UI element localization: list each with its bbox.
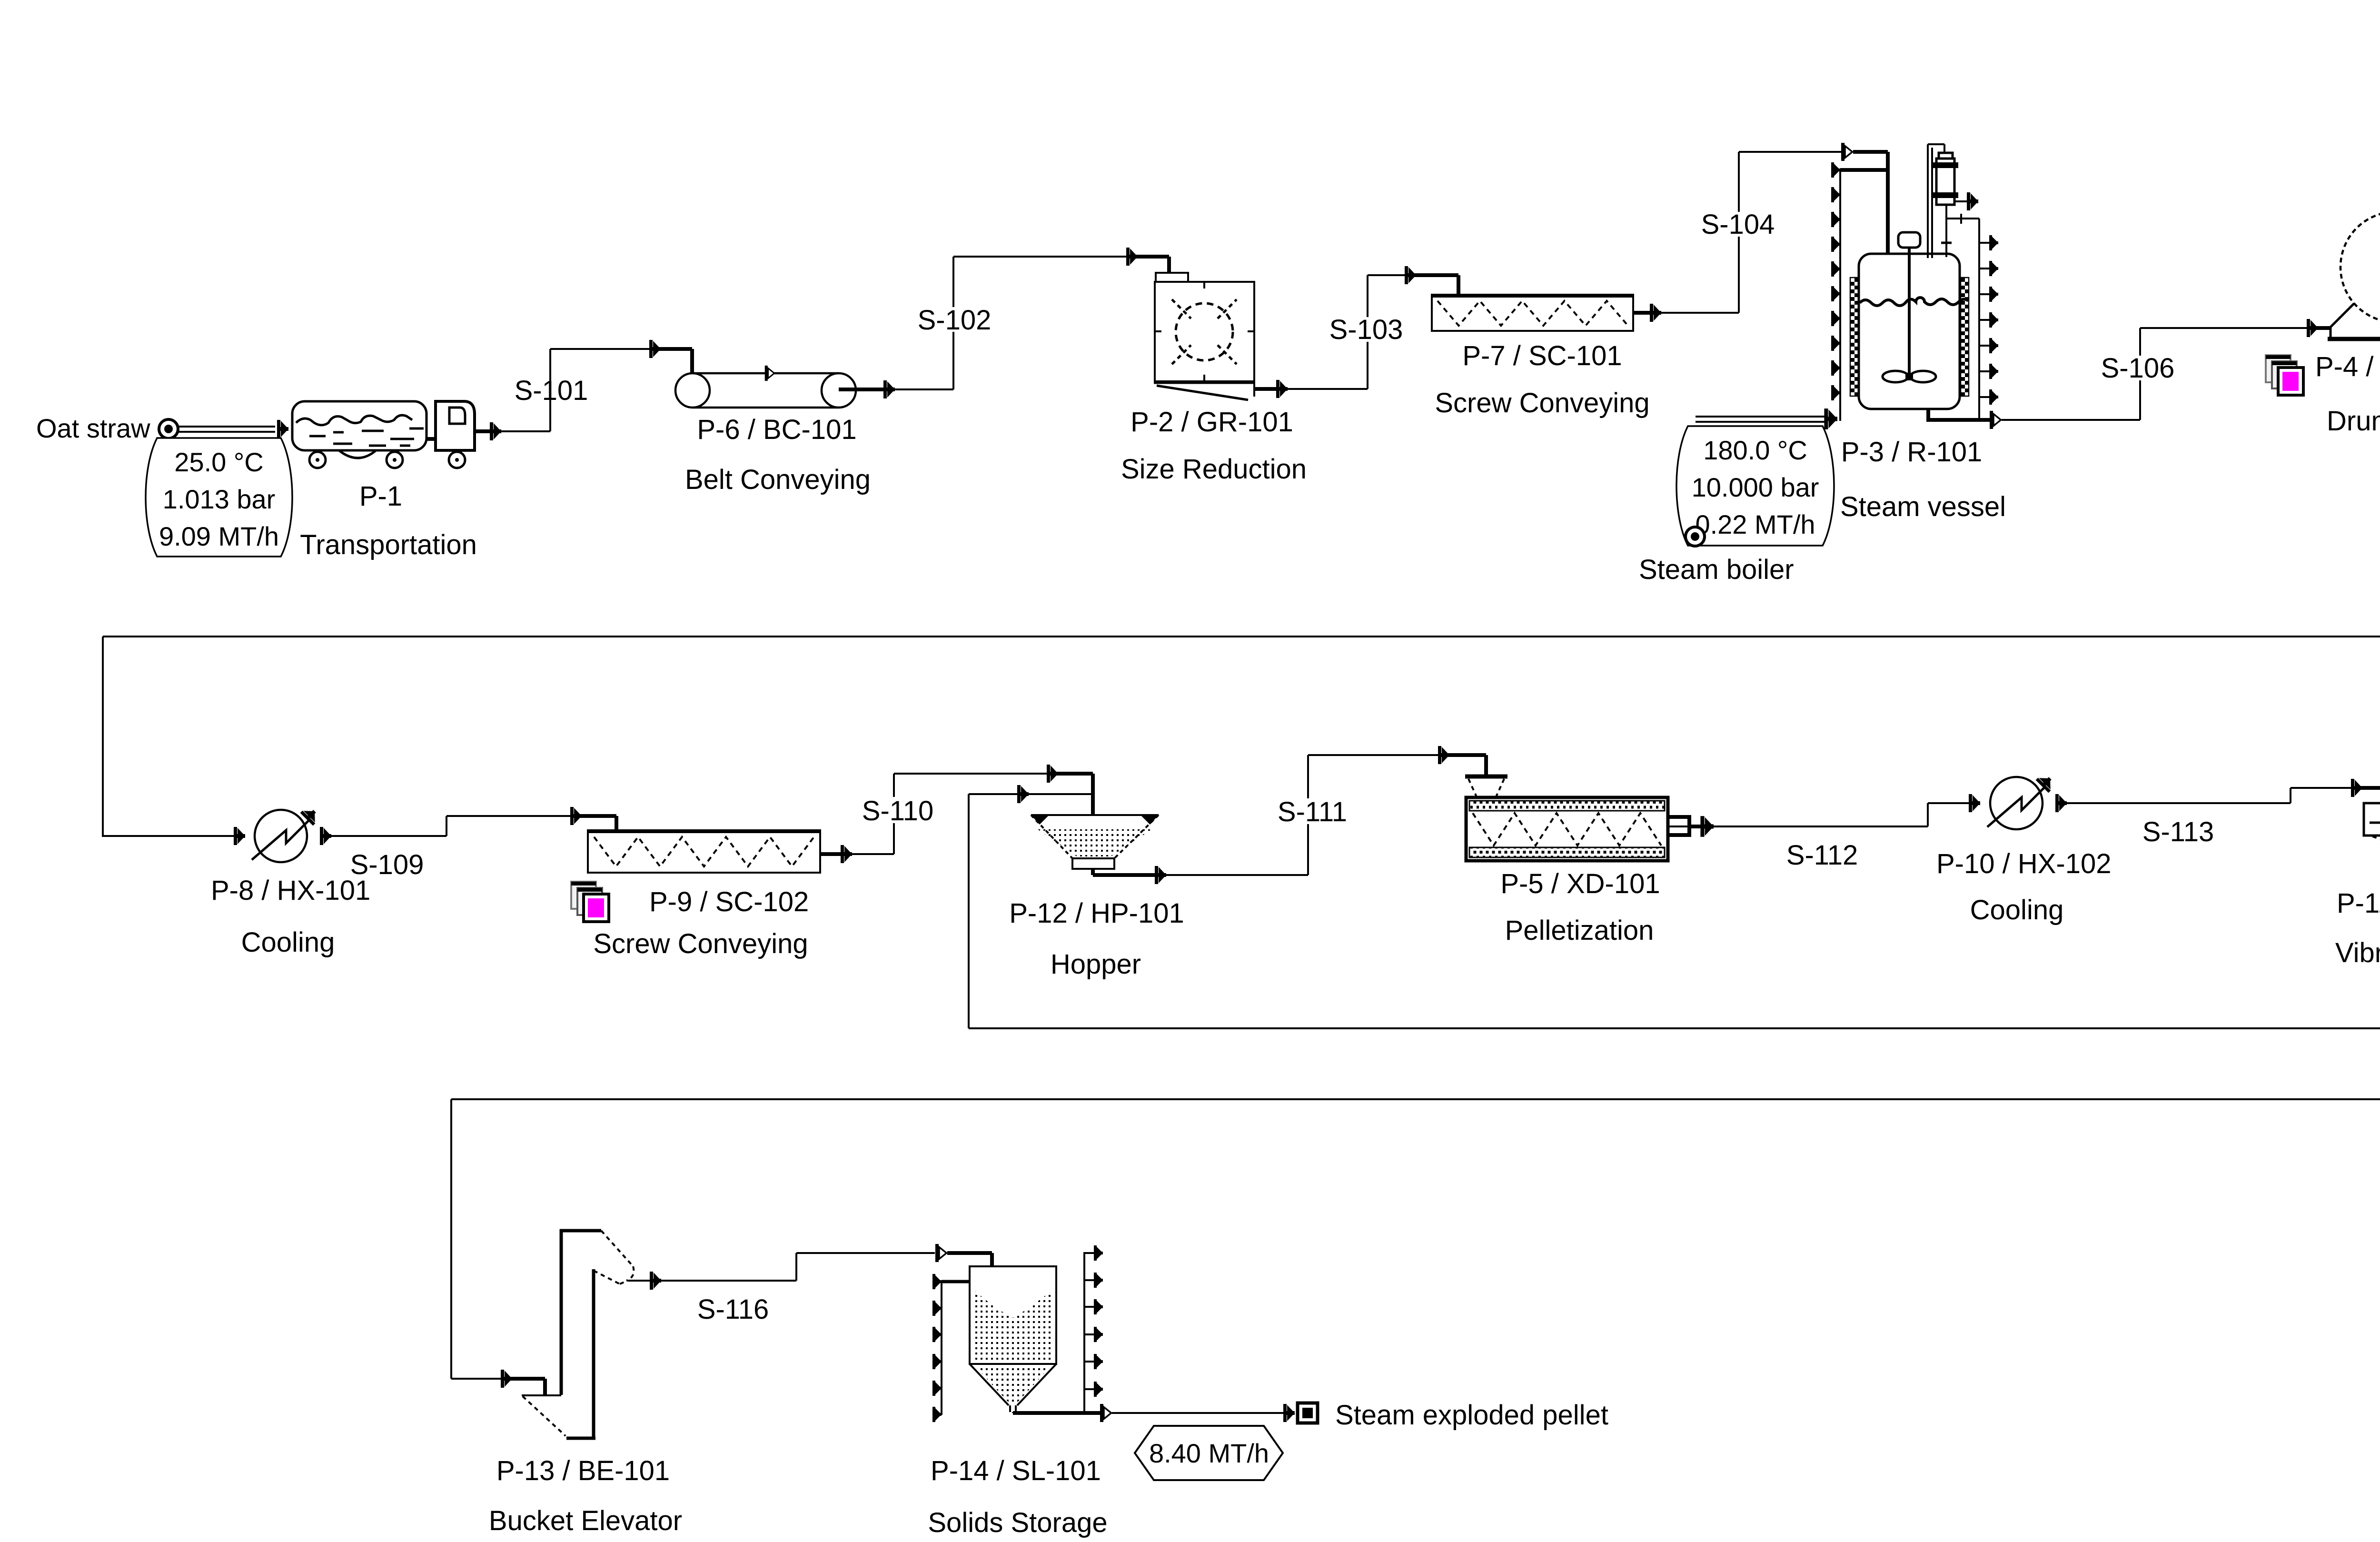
- label Steam vessel: [1840, 491, 2006, 522]
- label Transportation: [300, 529, 477, 560]
- svg-text:Hopper: Hopper: [1051, 949, 1141, 980]
- stream S-108 wire: [103, 318, 2380, 837]
- equipment P-6 / BC-101 Belt Conveying: [675, 366, 856, 408]
- svg-text:P-5 / XD-101: P-5 / XD-101: [1500, 868, 1660, 899]
- label P-6 / BC-101: [697, 414, 856, 445]
- condenser return line to vessel: [1941, 205, 1952, 257]
- svg-text:P-1: P-1: [359, 481, 402, 512]
- equipment P-5 / XD-101 Pelletization: [1465, 776, 1703, 861]
- svg-text:P-7 / SC-101: P-7 / SC-101: [1462, 340, 1622, 371]
- jacket right line: [1947, 214, 1979, 420]
- steam jacket left arrows: [1831, 162, 1840, 400]
- svg-text:S-116: S-116: [697, 1294, 769, 1325]
- label S-111: [1274, 796, 1350, 827]
- svg-text:P-9 / SC-102: P-9 / SC-102: [649, 886, 809, 917]
- svg-text:P-11 / VSCR-101: P-11 / VSCR-101: [2337, 888, 2380, 919]
- svg-text:P-14 / SL-101: P-14 / SL-101: [931, 1455, 1101, 1486]
- input port: Oat straw: [159, 419, 178, 438]
- label S-104: [1701, 209, 1775, 240]
- svg-text:S-102: S-102: [918, 305, 992, 336]
- stream S-111 wire: [1093, 746, 1486, 884]
- svg-text:Steam boiler: Steam boiler: [1639, 554, 1794, 585]
- label P-13 / BE-101: [496, 1455, 670, 1486]
- output port: Steam exploded pellet: [1298, 1403, 1318, 1423]
- wire Oat straw feed (double line): [178, 420, 288, 438]
- label Solids Storage: [928, 1507, 1107, 1538]
- label P-3 / R-101: [1841, 437, 1983, 468]
- svg-text:Steam exploded pellet: Steam exploded pellet: [1335, 1400, 1608, 1431]
- svg-text:S-112: S-112: [1786, 840, 1858, 871]
- silo right arrows column: [1084, 1245, 1103, 1413]
- stream S-109 wire: [331, 807, 616, 836]
- label S-102: [918, 305, 992, 336]
- stream S-101 wire: [475, 340, 692, 440]
- stream S-112 wire: [1700, 794, 1980, 837]
- equipment P-3 / R-101 Steam vessel body: [1850, 254, 1969, 409]
- svg-text:P-13 / BE-101: P-13 / BE-101: [496, 1455, 670, 1486]
- svg-text:Oat straw: Oat straw: [36, 413, 150, 443]
- svg-text:S-111: S-111: [1278, 796, 1347, 827]
- svg-text:Size Reduction: Size Reduction: [1121, 454, 1307, 485]
- label Screw Conveying: [1435, 388, 1649, 418]
- stream S-106 wire: [1928, 319, 2330, 429]
- drum dryer drum (dashed circle): [2340, 212, 2380, 322]
- svg-text:0.22 MT/h: 0.22 MT/h: [1695, 509, 1815, 539]
- label S-110: [860, 796, 936, 826]
- svg-text:Screw Conveying: Screw Conveying: [1435, 388, 1649, 418]
- svg-text:P-12 / HP-101: P-12 / HP-101: [1009, 898, 1184, 929]
- equipment P-2 / GR-101 Size Reduction (grinder): [1154, 273, 1255, 400]
- svg-text:25.0 °C: 25.0 °C: [174, 447, 263, 477]
- label S-103: [1329, 314, 1403, 345]
- svg-text:P-2 / GR-101: P-2 / GR-101: [1130, 407, 1293, 438]
- svg-text:Steam vessel: Steam vessel: [1840, 491, 2006, 522]
- stream S-115 wire (screen underflow recycle): [969, 858, 2380, 1028]
- svg-text:Vibrating Screen: Vibrating Screen: [2335, 937, 2380, 968]
- label Pelletization: [1505, 915, 1654, 946]
- label Drum Drying: [2327, 406, 2380, 437]
- svg-text:P-3 / R-101: P-3 / R-101: [1841, 437, 1983, 468]
- label S-116: [697, 1294, 769, 1325]
- svg-text:Pelletization: Pelletization: [1505, 915, 1654, 946]
- label S-109: [350, 849, 424, 880]
- label Oat straw: [36, 413, 150, 443]
- impeller: [1883, 371, 1936, 382]
- svg-text:Cooling: Cooling: [241, 927, 335, 958]
- input port: Steam boiler: [1686, 527, 1705, 546]
- equipment P-8 / HX-101 Cooling (heat exchanger): [103, 805, 331, 862]
- callout: steam conditions 180.0 C / 10.000 bar / 0.22 MT/h: [1676, 426, 1834, 546]
- label S-101: [515, 375, 588, 406]
- label Size Reduction: [1121, 454, 1307, 485]
- svg-text:S-113: S-113: [2142, 816, 2214, 847]
- stream S-104 wire: [1633, 143, 1888, 322]
- label Steam boiler: [1639, 554, 1794, 585]
- equipment P-7 / SC-101 Screw Conveying: [1432, 295, 1633, 331]
- equipment P-10 / HX-102 Cooling (heat exchanger): [1987, 772, 2067, 829]
- label Belt Conveying: [685, 464, 871, 495]
- svg-text:P-6 / BC-101: P-6 / BC-101: [697, 414, 856, 445]
- stream S-114 wire: [451, 804, 2380, 1394]
- svg-text:S-110: S-110: [862, 796, 933, 826]
- svg-text:Screw Conveying: Screw Conveying: [593, 928, 808, 959]
- stream S-102 wire: [839, 248, 1169, 398]
- steam jacket right arrows: [1979, 235, 1998, 405]
- svg-text:Cooling: Cooling: [1970, 895, 2064, 925]
- svg-text:1.013 bar: 1.013 bar: [163, 484, 276, 514]
- equipment P-1 Transportation: truck trailer: [292, 401, 426, 458]
- equipment P-11 / VSCR-101 Vibrating Screen: [2364, 803, 2380, 866]
- label S-113: [2142, 816, 2214, 847]
- callout: product rate 8.40 MT/h: [1135, 1426, 1283, 1480]
- label S-112: [1786, 840, 1858, 871]
- stream S-103 wire: [1254, 266, 1458, 398]
- svg-text:S-101: S-101: [515, 375, 588, 406]
- agitator motor and shaft: [1898, 232, 1920, 377]
- equipment P-14 / SL-101 Solids Storage silo: [970, 1266, 1056, 1412]
- svg-text:180.0 °C: 180.0 °C: [1703, 435, 1807, 465]
- stream S-115 recycle into hopper: [969, 785, 1093, 1028]
- svg-text:P-4 / DDR-101: P-4 / DDR-101: [2315, 351, 2380, 382]
- label Screw Conveying (SC-102): [593, 928, 808, 959]
- label P-2 / GR-101: [1130, 407, 1293, 438]
- label P-9 / SC-102: [649, 886, 809, 917]
- svg-text:S-104: S-104: [1701, 209, 1775, 240]
- label Vibrating Screen: [2335, 937, 2380, 968]
- stream product wire: Steam exploded pellet: [1013, 1404, 1295, 1422]
- equipment P-9 / SC-102 Screw Conveying: [588, 830, 820, 873]
- label P-8 / HX-101: [211, 875, 370, 906]
- svg-text:Transportation: Transportation: [300, 529, 477, 560]
- label Bucket Elevator: [489, 1505, 682, 1536]
- label P-7 / SC-101: [1462, 340, 1622, 371]
- svg-text:Belt Conveying: Belt Conveying: [685, 464, 871, 495]
- svg-text:10.000 bar: 10.000 bar: [1692, 472, 1819, 502]
- label Steam exploded pellet: [1335, 1400, 1608, 1431]
- label P-1: [359, 481, 402, 512]
- svg-text:S-109: S-109: [350, 849, 424, 880]
- label P-4 / DDR-101: [2315, 351, 2380, 382]
- doc icon for P-4: [2266, 355, 2303, 395]
- label Cooling (HX-102): [1970, 895, 2064, 925]
- stream S-113 wire: [2067, 779, 2380, 804]
- condenser body: [1933, 153, 1978, 210]
- equipment P-4 / DDR-101 Drum Drying: pedestal: [2328, 298, 2380, 339]
- svg-text:P-8 / HX-101: P-8 / HX-101: [211, 875, 370, 906]
- svg-text:Drum Drying: Drum Drying: [2327, 406, 2380, 437]
- condenser pipes on vessel top: [1928, 144, 1944, 258]
- label S-106: [2101, 353, 2175, 384]
- svg-text:S-103: S-103: [1329, 314, 1403, 345]
- svg-text:P-10 / HX-102: P-10 / HX-102: [1936, 848, 2112, 879]
- label Cooling (HX-101): [241, 927, 335, 958]
- wire steam boiler to jacket (double line): [1696, 417, 1828, 422]
- svg-text:9.09 MT/h: 9.09 MT/h: [159, 521, 279, 551]
- svg-text:8.40 MT/h: 8.40 MT/h: [1149, 1438, 1269, 1468]
- equipment P-13 / BE-101 Bucket Elevator: [522, 1229, 634, 1438]
- svg-text:Bucket Elevator: Bucket Elevator: [489, 1505, 682, 1536]
- label P-12 / HP-101: [1009, 898, 1184, 929]
- steam jacket left pipe of R-101: [1840, 169, 1888, 421]
- steam feed arrow into jacket: [1824, 408, 1837, 429]
- svg-text:S-106: S-106: [2101, 353, 2175, 384]
- truck wheels: [309, 452, 465, 468]
- label P-11 / VSCR-101: [2337, 888, 2380, 919]
- stream S-116 wire: [627, 1244, 992, 1290]
- label P-5 / XD-101: [1500, 868, 1660, 899]
- equipment P-12 / HP-101 Hopper: [1031, 815, 1159, 869]
- stream S-110 wire: [820, 765, 1093, 863]
- svg-text:Solids Storage: Solids Storage: [928, 1507, 1107, 1538]
- silo left arrows column: [932, 1274, 970, 1422]
- truck cab: [426, 401, 475, 450]
- label Hopper: [1051, 949, 1141, 980]
- doc icon for P-9: [571, 882, 609, 922]
- label P-14 / SL-101: [931, 1455, 1101, 1486]
- callout: oat straw conditions 25.0 C / 1.013 bar / 9.09 MT/h: [146, 438, 292, 557]
- label P-10 / HX-102: [1936, 848, 2112, 879]
